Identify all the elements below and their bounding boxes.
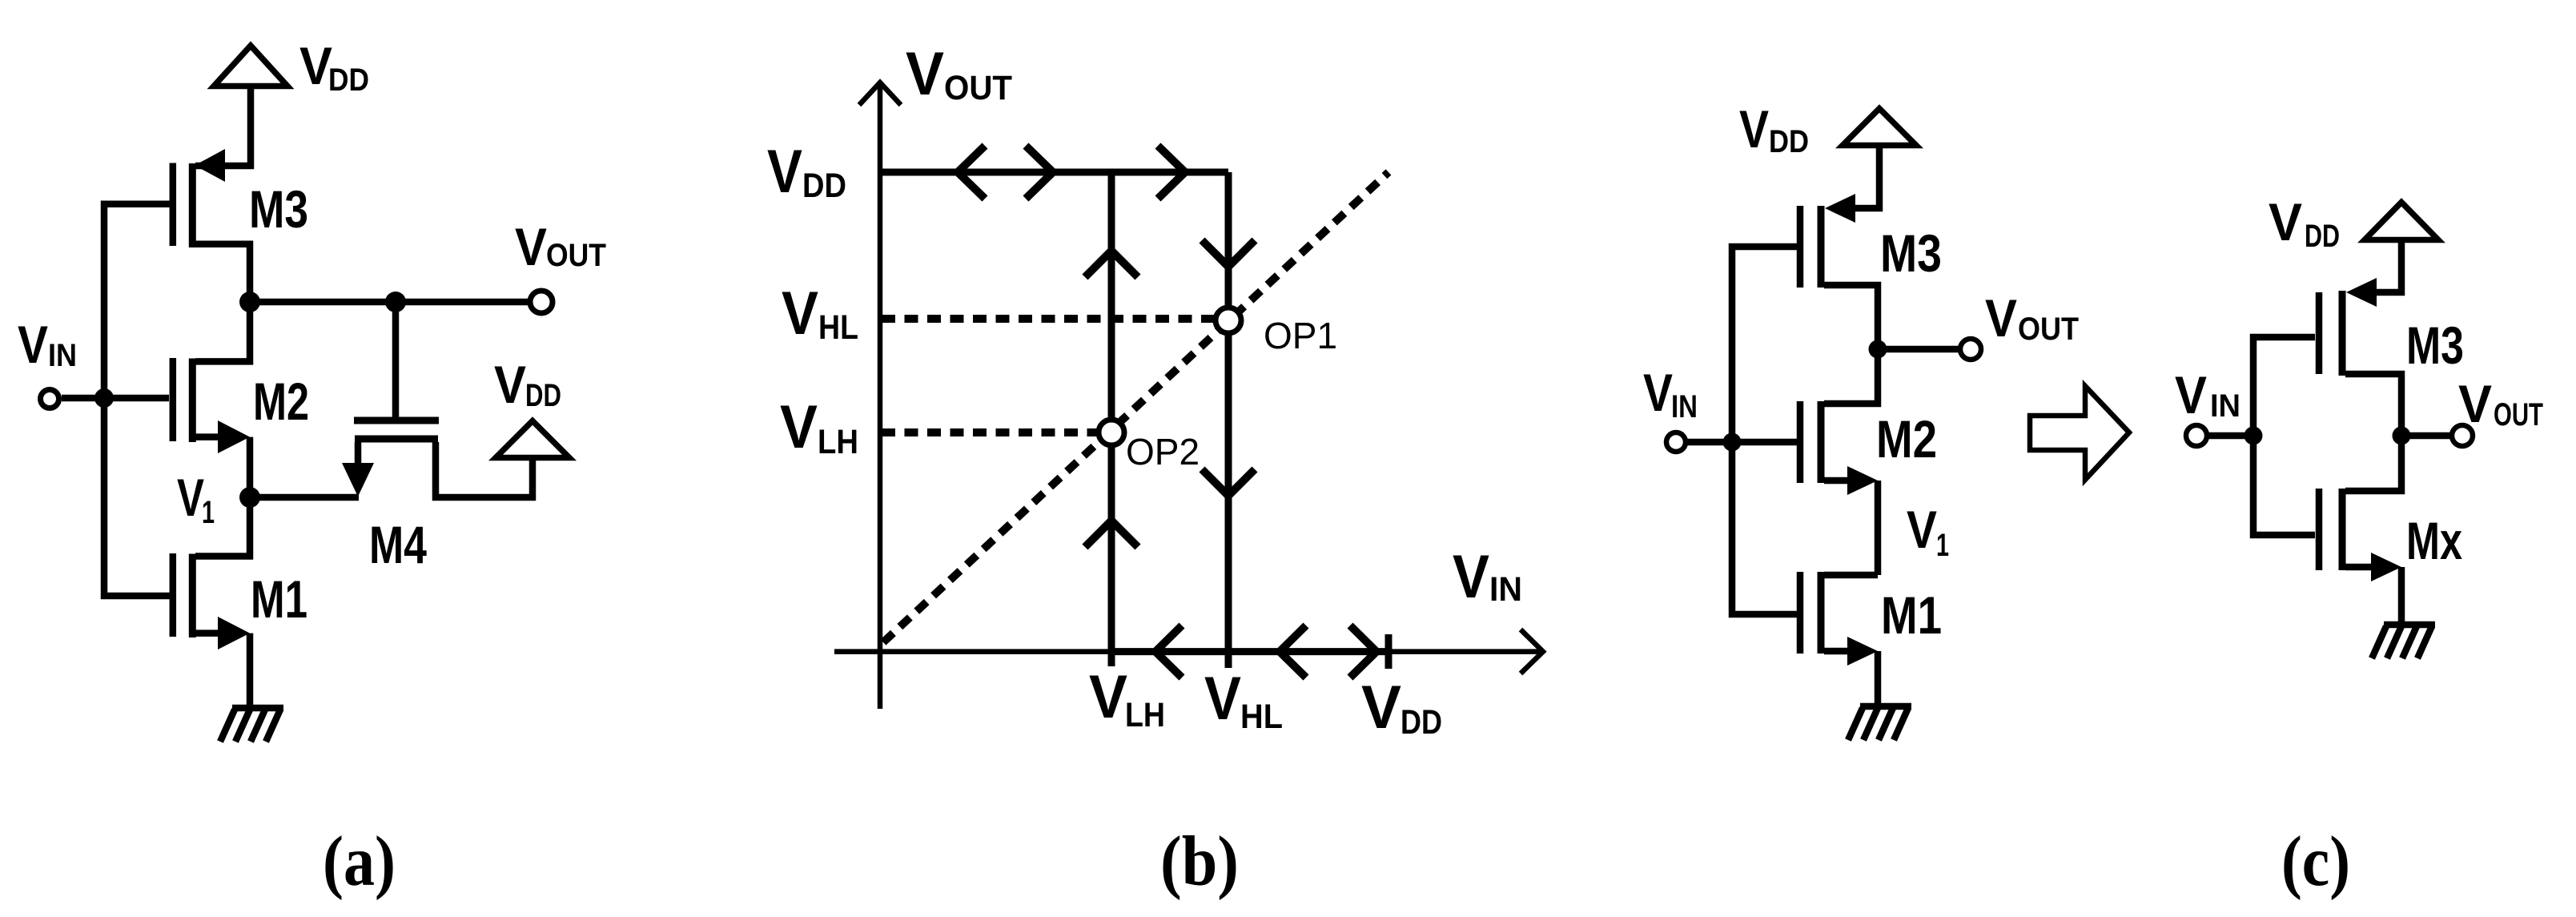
svg-text:(b): (b) [1160,822,1239,901]
svg-text:OUT: OUT [546,238,606,273]
svg-text:OP1: OP1 [1264,315,1337,356]
svg-text:M2: M2 [1876,409,1937,469]
svg-text:DD: DD [328,62,369,98]
svg-text:DD: DD [1401,703,1442,742]
svg-text:HL: HL [818,308,858,347]
svg-text:V: V [1907,500,1937,559]
svg-text:LH: LH [1125,696,1165,734]
svg-text:IN: IN [48,338,77,373]
svg-text:V: V [767,138,802,206]
svg-text:DD: DD [2305,219,2340,254]
svg-text:1: 1 [1936,528,1949,563]
svg-text:V: V [1361,674,1401,742]
svg-text:V: V [1985,288,2017,348]
svg-text:IN: IN [1671,389,1698,424]
svg-text:M3: M3 [1880,223,1942,283]
svg-text:DD: DD [1769,124,1809,159]
svg-text:V: V [1204,665,1241,733]
svg-text:V: V [1089,663,1127,731]
svg-text:V: V [2175,365,2207,424]
svg-text:Mx: Mx [2406,511,2462,570]
svg-text:V: V [515,217,547,276]
svg-text:V: V [1453,543,1489,611]
svg-text:V: V [906,40,944,108]
svg-text:V: V [1643,363,1673,422]
svg-text:1: 1 [202,495,215,530]
svg-text:IN: IN [1489,570,1522,609]
svg-text:(c): (c) [2281,822,2350,901]
svg-text:LH: LH [818,423,858,461]
svg-text:V: V [177,468,204,527]
svg-text:HL: HL [1240,698,1283,736]
svg-text:M3: M3 [2406,316,2464,375]
svg-text:M2: M2 [253,372,309,431]
svg-text:V: V [782,280,818,348]
svg-text:(a): (a) [323,822,396,901]
svg-text:OUT: OUT [944,69,1012,107]
svg-text:V: V [780,393,818,461]
svg-text:V: V [299,36,332,95]
svg-text:M1: M1 [1881,585,1942,645]
svg-text:V: V [2458,374,2492,433]
svg-text:M1: M1 [251,569,307,629]
svg-text:M3: M3 [249,179,308,239]
svg-text:V: V [494,355,526,414]
svg-text:OP2: OP2 [1126,431,1200,473]
svg-text:OUT: OUT [2494,397,2543,432]
svg-text:DD: DD [525,378,561,413]
svg-text:V: V [1739,99,1769,159]
svg-text:M4: M4 [369,515,427,574]
svg-text:DD: DD [802,167,846,205]
svg-text:OUT: OUT [2018,312,2079,347]
svg-text:V: V [2269,192,2302,251]
svg-text:IN: IN [2210,388,2240,424]
svg-text:V: V [18,315,48,374]
